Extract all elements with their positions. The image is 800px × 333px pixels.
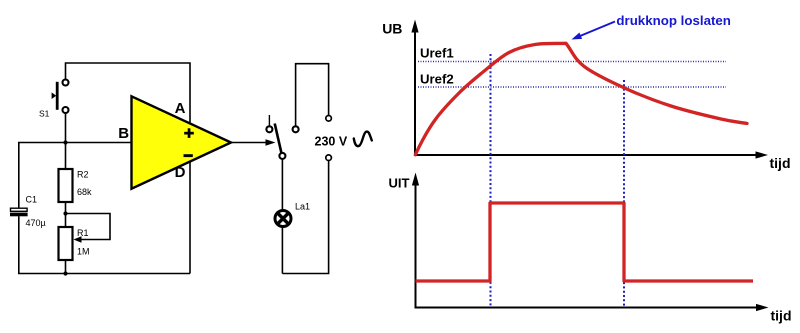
svg-text:470µ: 470µ (26, 218, 46, 228)
node B junction dot (63, 140, 67, 144)
junction dot between R2 and R1 (63, 211, 67, 215)
svg-text:C1: C1 (26, 195, 38, 205)
relay switch blade (275, 124, 282, 153)
dotted line Uref2 (418, 86, 726, 88)
svg-text:68k: 68k (77, 187, 92, 197)
pin + (184, 128, 194, 138)
svg-text:A: A (175, 100, 186, 117)
wire node B to op-amp input B (66, 142, 132, 144)
230V source top terminal (326, 116, 332, 122)
svg-text:tijd: tijd (770, 155, 791, 171)
wire R2 to R1 (65, 202, 67, 227)
wire left rail bottom (19, 216, 190, 273)
switch S1 (52, 80, 69, 114)
svg-text:tijd: tijd (771, 308, 792, 324)
junction dot bottom rail (63, 271, 67, 275)
svg-text:230 V: 230 V (315, 135, 348, 149)
wiper arrow into R1 (74, 236, 82, 243)
resistor R1 (potentiometer) (59, 227, 73, 260)
wire op-amp D input from bottom rail (189, 162, 191, 274)
230V source bottom terminal (326, 155, 332, 161)
wire node B down to R2 (65, 143, 67, 170)
lamp La1 (275, 211, 291, 227)
red UIT pulse (416, 203, 754, 281)
relay contact left terminal (266, 126, 272, 132)
wire S1 bottom to node B (65, 112, 67, 143)
dotted vertical line t2 (623, 80, 625, 307)
op-amp U1 (132, 96, 232, 188)
red UB curve (415, 43, 747, 155)
wire right contact up to top rail (296, 64, 329, 126)
wire left rail top (19, 143, 66, 209)
bottom graph Y axis (415, 184, 417, 308)
top graph Y axis (414, 31, 416, 155)
relay contact right terminal (293, 126, 299, 132)
wire top rail from S1 to op-amp A input (66, 63, 191, 123)
svg-text:Uref2: Uref2 (420, 72, 454, 87)
wire wiper loop of R1 (66, 214, 111, 240)
svg-text:1M: 1M (77, 247, 90, 257)
wire relay common down to lamp (281, 159, 283, 210)
wire lamp to bottom rail (281, 228, 283, 274)
svg-text:B: B (118, 125, 129, 142)
bottom graph X axis (415, 307, 758, 309)
dotted vertical line t1 (490, 54, 492, 307)
wire R1 to bottom rail (65, 260, 67, 274)
svg-text:R2: R2 (77, 170, 89, 180)
svg-text:La1: La1 (295, 202, 310, 212)
svg-text:R1: R1 (77, 228, 89, 238)
pin - (184, 154, 193, 157)
top graph X axis (414, 154, 757, 156)
sine symbol (354, 132, 372, 147)
wire 230V bottom to rail (282, 161, 328, 274)
svg-text:UIT: UIT (389, 176, 410, 191)
svg-text:UB: UB (382, 20, 402, 36)
dotted line Uref1 (418, 61, 726, 63)
annotation arrow drukknop loslaten (580, 22, 615, 37)
wire op-amp output arrow (231, 142, 267, 144)
capacitor C1 (10, 208, 28, 216)
resistor R2 (59, 169, 73, 202)
svg-text:D: D (175, 164, 186, 181)
relay common terminal (279, 153, 285, 159)
relay contact left stub (268, 115, 270, 126)
svg-text:S1: S1 (39, 109, 50, 119)
svg-text:drukknop loslaten: drukknop loslaten (616, 13, 731, 28)
svg-text:Uref1: Uref1 (420, 46, 454, 61)
